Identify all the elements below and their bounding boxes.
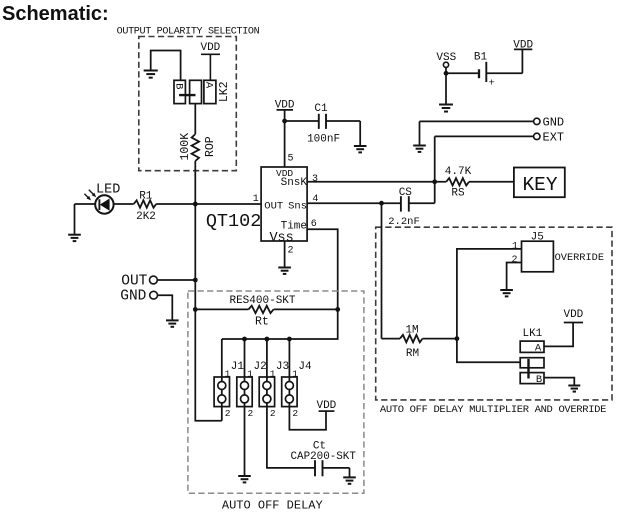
svg-text:Rt: Rt bbox=[255, 316, 269, 329]
svg-text:1: 1 bbox=[512, 241, 518, 252]
svg-text:2: 2 bbox=[292, 408, 298, 419]
svg-text:QT102: QT102 bbox=[206, 211, 262, 232]
svg-text:1: 1 bbox=[253, 194, 259, 205]
svg-text:100K: 100K bbox=[179, 133, 192, 161]
svg-text:OUTPUT POLARITY SELECTION: OUTPUT POLARITY SELECTION bbox=[117, 27, 260, 38]
svg-text:2: 2 bbox=[225, 408, 231, 419]
svg-text:VDD: VDD bbox=[563, 309, 583, 321]
svg-text:CAP200-SKT: CAP200-SKT bbox=[291, 451, 357, 463]
svg-text:C1: C1 bbox=[314, 103, 328, 115]
svg-text:2: 2 bbox=[288, 246, 294, 257]
svg-text:AUTO OFF DELAY: AUTO OFF DELAY bbox=[222, 498, 323, 512]
svg-text:B: B bbox=[536, 374, 542, 386]
svg-text:R1: R1 bbox=[139, 191, 153, 203]
svg-text:SnsK: SnsK bbox=[281, 177, 308, 189]
svg-text:5: 5 bbox=[288, 154, 294, 165]
svg-text:RES400-SKT: RES400-SKT bbox=[229, 295, 295, 307]
svg-text:KEY: KEY bbox=[522, 174, 557, 196]
svg-text:J4: J4 bbox=[298, 361, 312, 373]
svg-text:OUT: OUT bbox=[264, 200, 283, 212]
svg-text:EXT: EXT bbox=[543, 131, 565, 145]
svg-text:VDD: VDD bbox=[316, 400, 336, 412]
svg-text:J3: J3 bbox=[276, 361, 289, 373]
svg-text:2: 2 bbox=[248, 408, 254, 419]
svg-text:100nF: 100nF bbox=[307, 134, 340, 146]
svg-text:GND: GND bbox=[543, 116, 565, 130]
svg-text:VDD: VDD bbox=[200, 42, 220, 54]
svg-text:J1: J1 bbox=[231, 361, 245, 373]
svg-text:CS: CS bbox=[399, 187, 413, 199]
svg-text:Sns: Sns bbox=[288, 200, 307, 212]
svg-text:2.2nF: 2.2nF bbox=[388, 216, 420, 228]
svg-text:LED: LED bbox=[96, 183, 120, 198]
svg-text:GND: GND bbox=[120, 288, 146, 304]
svg-text:1: 1 bbox=[292, 368, 298, 379]
svg-text:J2: J2 bbox=[253, 361, 266, 373]
svg-text:RS: RS bbox=[451, 188, 465, 200]
svg-text:OVERRIDE: OVERRIDE bbox=[555, 252, 604, 264]
svg-text:1: 1 bbox=[225, 368, 231, 379]
svg-text:Vss: Vss bbox=[269, 231, 293, 246]
svg-text:A: A bbox=[203, 82, 215, 89]
svg-text:J5: J5 bbox=[531, 232, 544, 244]
svg-text:AUTO OFF DELAY MULTIPLIER AND: AUTO OFF DELAY MULTIPLIER AND OVERRIDE bbox=[380, 404, 606, 416]
svg-text:2: 2 bbox=[511, 255, 517, 266]
svg-text:+: + bbox=[488, 78, 494, 90]
svg-text:ROP: ROP bbox=[204, 136, 217, 157]
svg-text:4.7K: 4.7K bbox=[445, 166, 472, 178]
svg-text:A: A bbox=[535, 343, 542, 355]
svg-text:LK2: LK2 bbox=[218, 81, 231, 102]
svg-text:2: 2 bbox=[270, 408, 276, 419]
svg-text:B: B bbox=[173, 83, 185, 89]
svg-text:3: 3 bbox=[312, 174, 318, 185]
svg-text:2K2: 2K2 bbox=[136, 211, 156, 223]
svg-text:B1: B1 bbox=[474, 52, 488, 64]
svg-text:LK1: LK1 bbox=[522, 328, 542, 340]
svg-text:1M: 1M bbox=[405, 325, 418, 337]
svg-text:RM: RM bbox=[406, 348, 419, 360]
svg-text:Schematic:: Schematic: bbox=[2, 3, 109, 25]
svg-text:OUT: OUT bbox=[121, 274, 147, 290]
svg-text:1: 1 bbox=[270, 368, 276, 379]
svg-text:1: 1 bbox=[247, 368, 253, 379]
